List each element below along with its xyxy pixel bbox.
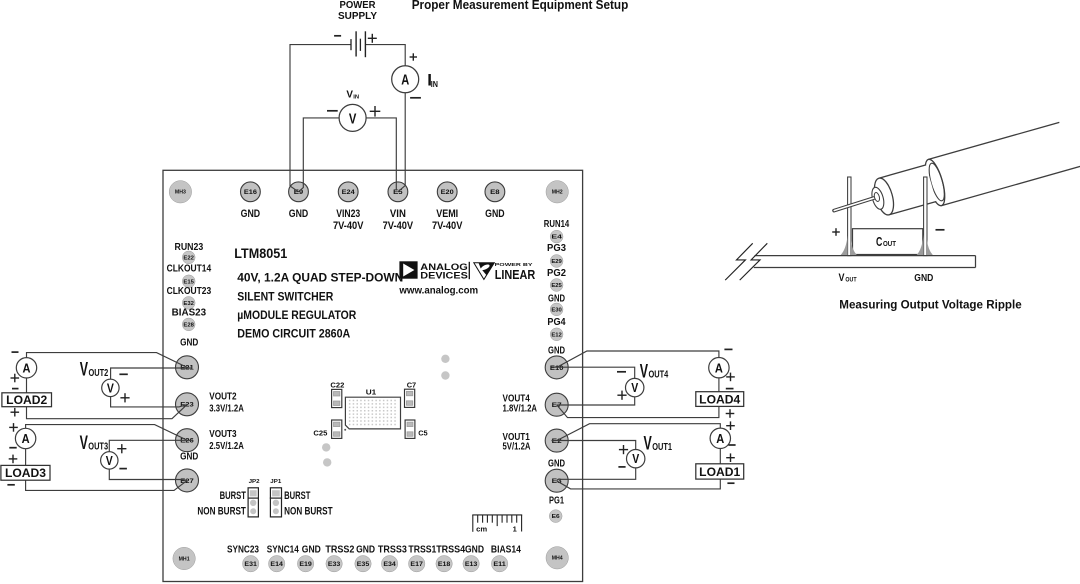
svg-text:V: V: [80, 360, 89, 381]
svg-text:E34: E34: [383, 561, 396, 568]
svg-text:A: A: [23, 361, 32, 376]
svg-text:E13: E13: [465, 561, 478, 568]
svg-text:V: V: [640, 361, 649, 382]
svg-text:U1: U1: [366, 387, 377, 396]
svg-text:1.8V/1.2A: 1.8V/1.2A: [503, 402, 538, 414]
svg-text:E11: E11: [493, 561, 506, 568]
svg-text:E6: E6: [552, 514, 560, 520]
svg-text:SUPPLY: SUPPLY: [338, 11, 377, 22]
svg-text:MH3: MH3: [175, 190, 186, 196]
svg-text:MH4: MH4: [552, 556, 563, 562]
svg-text:E29: E29: [551, 259, 562, 265]
svg-text:BURST: BURST: [284, 490, 311, 502]
svg-text:A: A: [22, 431, 31, 446]
svg-text:JP2: JP2: [249, 479, 260, 485]
svg-text:BIAS14: BIAS14: [491, 545, 521, 556]
svg-text:OUT1: OUT1: [652, 441, 672, 453]
svg-text:C: C: [876, 234, 883, 249]
svg-text:E24: E24: [342, 189, 355, 196]
svg-text:E19: E19: [299, 561, 312, 568]
svg-text:GND: GND: [289, 208, 309, 220]
svg-text:LTM8051: LTM8051: [234, 245, 287, 261]
svg-text:TRSS3: TRSS3: [378, 545, 407, 556]
svg-text:V: V: [349, 110, 357, 127]
svg-text:E16: E16: [244, 189, 257, 196]
svg-text:GND: GND: [302, 545, 321, 556]
svg-text:SILENT SWITCHER: SILENT SWITCHER: [237, 289, 333, 303]
svg-text:V: V: [106, 454, 114, 468]
svg-text:E14: E14: [270, 561, 283, 568]
svg-text:E31: E31: [244, 561, 257, 568]
svg-text:TRSS2: TRSS2: [325, 545, 354, 556]
svg-text:V: V: [644, 433, 653, 454]
svg-text:SYNC14: SYNC14: [267, 545, 299, 556]
svg-text:V: V: [632, 452, 640, 466]
svg-text:E35: E35: [357, 561, 370, 568]
svg-text:E25: E25: [551, 283, 562, 289]
svg-text:cm: cm: [476, 524, 487, 533]
svg-text:IN: IN: [353, 94, 359, 100]
svg-text:GND: GND: [241, 208, 261, 220]
svg-text:LINEAR: LINEAR: [495, 267, 536, 282]
svg-text:3.3V/1.2A: 3.3V/1.2A: [209, 403, 244, 415]
svg-text:C25: C25: [313, 428, 327, 437]
svg-text:GND: GND: [180, 336, 199, 348]
svg-text:E10: E10: [550, 365, 564, 372]
svg-text:E28: E28: [183, 322, 194, 328]
svg-text:POWER: POWER: [340, 0, 377, 11]
svg-text:E18: E18: [438, 561, 451, 568]
svg-text:GND: GND: [914, 273, 933, 284]
svg-text:IN: IN: [431, 79, 438, 89]
svg-text:E12: E12: [551, 332, 562, 338]
svg-text:PG1: PG1: [549, 495, 564, 507]
svg-text:E17: E17: [410, 561, 423, 568]
svg-text:VEMI: VEMI: [436, 208, 458, 220]
svg-text:LOAD4: LOAD4: [699, 392, 740, 406]
svg-text:A: A: [715, 360, 724, 375]
svg-text:GND: GND: [548, 344, 565, 356]
svg-text:Proper Measurement Equipment S: Proper Measurement Equipment Setup: [412, 0, 629, 12]
svg-text:VOUT3: VOUT3: [209, 428, 236, 440]
svg-text:CLKOUT23: CLKOUT23: [167, 286, 212, 297]
svg-text:OUT4: OUT4: [649, 369, 669, 381]
svg-text:GND: GND: [180, 450, 199, 462]
svg-text:NON BURST: NON BURST: [197, 505, 246, 517]
svg-text:TRSS4: TRSS4: [436, 545, 465, 556]
svg-text:VIN: VIN: [390, 208, 406, 220]
svg-text:E33: E33: [328, 561, 341, 568]
svg-text:2.5V/1.2A: 2.5V/1.2A: [209, 440, 244, 452]
svg-text:VIN23: VIN23: [336, 208, 360, 220]
svg-text:BURST: BURST: [220, 490, 247, 502]
svg-text:V: V: [839, 272, 846, 284]
svg-text:OUT3: OUT3: [88, 441, 108, 453]
svg-text:BIAS23: BIAS23: [172, 308, 207, 319]
svg-text:7V-40V: 7V-40V: [432, 220, 463, 232]
svg-text:7V-40V: 7V-40V: [333, 220, 364, 232]
svg-text:V: V: [107, 381, 115, 395]
svg-text:µMODULE REGULATOR: µMODULE REGULATOR: [237, 308, 356, 322]
svg-text:C22: C22: [330, 380, 344, 389]
svg-text:V: V: [631, 381, 639, 395]
svg-text:C5: C5: [418, 428, 428, 437]
svg-text:E20: E20: [441, 189, 454, 196]
svg-text:SYNC23: SYNC23: [227, 545, 259, 556]
svg-text:PG2: PG2: [547, 268, 566, 279]
svg-text:GND: GND: [465, 545, 484, 556]
svg-text:1: 1: [513, 524, 517, 533]
svg-text:CLKOUT14: CLKOUT14: [167, 263, 212, 274]
svg-text:OUT: OUT: [883, 239, 896, 248]
svg-text:GND: GND: [485, 208, 505, 220]
svg-text:40V, 1.2A QUAD STEP-DOWN: 40V, 1.2A QUAD STEP-DOWN: [237, 271, 403, 285]
svg-text:7V-40V: 7V-40V: [383, 220, 414, 232]
svg-text:V: V: [80, 433, 89, 454]
svg-text:A: A: [716, 431, 725, 446]
svg-text:LOAD2: LOAD2: [6, 393, 47, 407]
svg-text:E8: E8: [490, 189, 500, 196]
svg-text:TRSS1: TRSS1: [408, 545, 436, 556]
svg-text:V: V: [346, 89, 353, 101]
svg-text:RUN14: RUN14: [544, 219, 570, 230]
svg-text:GND: GND: [356, 545, 375, 556]
svg-text:Measuring Output Voltage Rippl: Measuring Output Voltage Ripple: [839, 297, 1022, 311]
svg-text:JP1: JP1: [270, 479, 282, 485]
svg-text:5V/1.2A: 5V/1.2A: [503, 440, 531, 452]
svg-text:OUT2: OUT2: [89, 367, 109, 379]
svg-text:NON BURST: NON BURST: [284, 505, 333, 517]
svg-text:DEVICES: DEVICES: [420, 271, 468, 281]
svg-text:www.analog.com: www.analog.com: [398, 285, 478, 296]
svg-text:E15: E15: [183, 279, 194, 285]
svg-text:MH2: MH2: [552, 190, 563, 196]
svg-text:OUT: OUT: [845, 277, 856, 284]
svg-text:PG4: PG4: [547, 317, 566, 328]
svg-text:A: A: [401, 72, 409, 89]
svg-text:MH1: MH1: [179, 556, 190, 562]
svg-text:E30: E30: [551, 307, 562, 313]
svg-text:PG3: PG3: [547, 243, 566, 254]
svg-text:E22: E22: [183, 255, 194, 261]
svg-text:E5: E5: [393, 189, 403, 196]
svg-text:GND: GND: [548, 458, 565, 470]
svg-text:VOUT2: VOUT2: [209, 391, 236, 403]
svg-text:DEMO CIRCUIT 2860A: DEMO CIRCUIT 2860A: [237, 327, 350, 341]
svg-text:C7: C7: [407, 380, 417, 389]
svg-text:LOAD3: LOAD3: [5, 466, 46, 480]
svg-text:E26: E26: [180, 438, 194, 445]
svg-text:E32: E32: [183, 301, 194, 307]
svg-text:E4: E4: [551, 235, 563, 241]
svg-text:LOAD1: LOAD1: [699, 465, 740, 479]
